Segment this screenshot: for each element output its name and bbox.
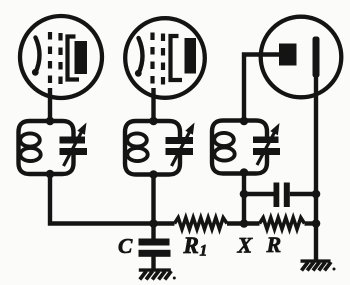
variable capacitor C1 arrow	[64, 130, 83, 166]
coil L3 turn 2	[214, 147, 234, 160]
wire tank2 bottom to bus	[151, 175, 155, 224]
tube V2 grid 2 (dashed)	[161, 34, 165, 86]
node tank1 bottom	[46, 170, 55, 179]
svg-text:C: C	[118, 234, 133, 258]
coil L2 turn 2	[127, 148, 147, 161]
node tank2 bottom	[149, 170, 158, 179]
wire V3 cathode to tank 3 top	[244, 55, 279, 122]
variable capacitor C3 arrow	[257, 131, 275, 165]
wire junction to coupling capacitor	[244, 192, 274, 196]
wire bus R1 to X to R	[227, 221, 260, 225]
variable capacitor C1 bottom plate	[60, 148, 88, 155]
tank L2C2 frame	[125, 121, 180, 175]
tube V1 envelope	[20, 16, 102, 98]
wire V1 grid to tank 1	[48, 88, 52, 121]
variable capacitor C2 bottom plate	[166, 148, 194, 155]
tube V2 anode plate	[185, 38, 197, 74]
wire capacitor C to ground	[151, 257, 155, 271]
tube V2 cathode	[139, 38, 143, 74]
tube V3 envelope	[261, 17, 342, 98]
tube V2 screen bracket	[171, 36, 183, 80]
coil L1 turn 1	[20, 133, 40, 146]
variable capacitor C3 bottom plate	[253, 148, 280, 155]
coupling capacitor left plate	[274, 183, 280, 208]
tube V1 grid 1 (dashed)	[48, 32, 52, 89]
wire bus R to right rail	[305, 221, 317, 225]
tank L1C1 frame	[19, 121, 74, 174]
node X junction	[240, 219, 249, 228]
node tank1 top	[46, 117, 55, 126]
node coupling branch	[240, 190, 249, 199]
tube V1 grid 2 (dashed)	[58, 33, 62, 86]
tube V1 cathode	[36, 38, 40, 73]
svg-text:X: X	[237, 233, 254, 258]
capacitor C bottom plate	[139, 250, 171, 257]
coil L2 turn 1	[127, 133, 147, 146]
wire V2 grid to tank 2	[151, 88, 155, 121]
tube V1 anode plate	[75, 41, 88, 74]
node tank3 bottom	[240, 168, 249, 177]
node rail capacitor	[312, 190, 321, 199]
variable capacitor C2 arrow	[172, 130, 191, 166]
coupling capacitor right plate	[284, 183, 290, 208]
resistor R zigzag	[260, 218, 305, 229]
tube V1 screen bracket	[68, 37, 80, 80]
coil L1 turn 2	[20, 148, 40, 161]
coil L3 turn 1	[214, 133, 234, 146]
svg-text:1: 1	[200, 243, 208, 260]
variable capacitor C2 top plate	[166, 137, 194, 144]
variable capacitor C1 top plate	[60, 137, 86, 144]
wire coupling capacitor to rail	[290, 192, 316, 196]
capacitor C top plate	[139, 239, 170, 246]
tube V2 grid 1 (dashed)	[150, 33, 154, 90]
tube V2 envelope	[125, 18, 205, 98]
wire tank3 bottom to node X	[242, 173, 246, 224]
wire V3 anode down right rail	[314, 75, 318, 261]
svg-text:R: R	[183, 233, 199, 258]
node tank2 top	[149, 117, 158, 126]
wire bus to capacitor C	[151, 224, 155, 240]
tube V3 anode bar	[313, 37, 320, 78]
svg-text:R: R	[266, 232, 282, 257]
ground right rail	[301, 259, 331, 262]
node tank3 top	[240, 117, 249, 126]
node rail bus	[312, 219, 321, 228]
wire bottom bus left segment	[50, 174, 175, 224]
ground below C	[139, 268, 171, 271]
tank L3C3 frame	[212, 121, 267, 174]
resistor R1 zigzag	[175, 218, 228, 229]
variable capacitor C3 top plate	[253, 137, 279, 144]
tube V3 cathode square	[279, 44, 297, 66]
node bus C junction	[149, 219, 158, 228]
